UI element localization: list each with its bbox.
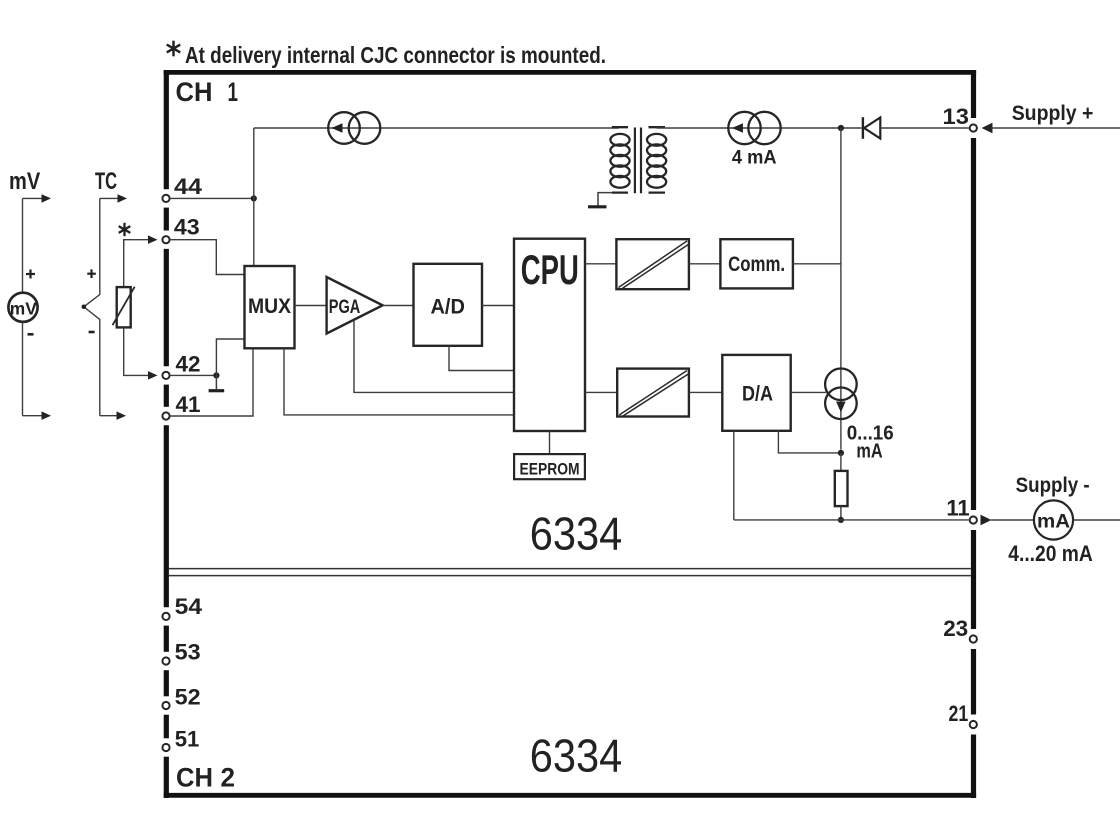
- svg-text:Comm.: Comm.: [728, 253, 785, 276]
- svg-text:MUX: MUX: [248, 295, 291, 318]
- terminal 41: [162, 392, 200, 420]
- mV source range arrow bottom: [23, 411, 52, 420]
- svg-text:13: 13: [943, 104, 969, 129]
- Supply + label: [1012, 102, 1094, 125]
- wire isolation 1 to Comm: [689, 263, 721, 265]
- CS3 value label 0...16 mA: [847, 422, 894, 462]
- CH 2 label: [176, 763, 235, 793]
- TC source range arrow top: [100, 194, 127, 203]
- wire CPU to EEPROM: [549, 431, 551, 454]
- MUX control line from CPU: [284, 348, 514, 415]
- wire PGA to A/D: [383, 305, 414, 307]
- svg-text:54: 54: [175, 594, 203, 619]
- wire ground node to MUX: [216, 339, 244, 375]
- TC lead with junction bend: [84, 198, 100, 415]
- transformer T1 secondary coil: [647, 127, 666, 192]
- excitation rail through current source CS1: [254, 127, 619, 129]
- wire Comm to supply bus: [793, 263, 841, 265]
- internal supply bus node B down to CS3: [840, 128, 842, 450]
- svg-text:21: 21: [949, 701, 969, 726]
- svg-text:A/D: A/D: [431, 296, 465, 319]
- CJC RTD resistor: [113, 287, 135, 328]
- svg-text:D/A: D/A: [742, 382, 773, 405]
- svg-text:Supply -: Supply -: [1016, 474, 1090, 497]
- svg-text:44: 44: [174, 174, 202, 199]
- diode D1 reverse polarity protection: [863, 117, 880, 139]
- supply plus arrow into terminal 13: [982, 123, 993, 133]
- svg-text:PGA: PGA: [329, 296, 361, 318]
- mV source lead lower: [22, 322, 24, 416]
- note text: [185, 42, 606, 68]
- svg-text:CPU: CPU: [521, 246, 579, 293]
- svg-text:4...20 mA: 4...20 mA: [1008, 541, 1092, 566]
- wire D/A to CS3: [791, 391, 826, 393]
- load resistor: [835, 471, 848, 506]
- analog ground symbol: [209, 375, 225, 390]
- output wire to terminal 11: [734, 519, 970, 521]
- module enclosure bottom border: [164, 793, 976, 798]
- wire load resistor to node D: [840, 506, 842, 520]
- svg-text:51: 51: [175, 727, 200, 752]
- svg-text:4 mA: 4 mA: [732, 148, 777, 169]
- note asterisk: [167, 41, 181, 57]
- current source CS2 4mA supply: [728, 112, 780, 144]
- svg-text:mV: mV: [9, 168, 40, 195]
- svg-text:2: 2: [221, 763, 236, 793]
- model number 6334 CH2: [530, 730, 623, 782]
- svg-text:1: 1: [228, 77, 239, 107]
- svg-text:CH: CH: [176, 763, 213, 793]
- svg-text:6334: 6334: [530, 507, 623, 559]
- wire terminal 42 to ground node: [170, 374, 217, 376]
- A/D status line to CPU: [449, 346, 514, 371]
- terminal 23: [943, 616, 977, 642]
- CJC branch wire to terminal 43: [124, 235, 158, 246]
- svg-text:At delivery internal CJC conne: At delivery internal CJC connector is mo…: [185, 42, 606, 68]
- mV polarity minus: [28, 333, 34, 336]
- svg-text:EEPROM: EEPROM: [520, 459, 580, 478]
- node D junction dot: [838, 517, 844, 523]
- CJC branch wire to terminal 42: [124, 327, 158, 379]
- supply minus wire: [1073, 519, 1120, 521]
- svg-text:mA: mA: [1037, 510, 1070, 532]
- transformer T1 primary coil: [610, 127, 629, 192]
- supply rail from transformer to node B: [657, 127, 862, 129]
- galvanic isolation output channel: [617, 369, 689, 417]
- A/D converter: [414, 264, 483, 346]
- wire terminal 41 to MUX: [170, 348, 253, 416]
- module enclosure right border (terminal strip): [971, 70, 976, 798]
- terminal 53: [162, 640, 200, 665]
- D/A feedback stub right: [778, 431, 838, 453]
- D/A feedback stub left: [733, 431, 735, 520]
- svg-text:11: 11: [946, 496, 969, 521]
- terminal 21: [949, 701, 977, 728]
- mV source lead upper: [22, 198, 24, 292]
- wire terminal 11 to mA meter: [991, 519, 1034, 521]
- wire node A up to excitation rail: [253, 128, 255, 198]
- wire isolation 2 to D/A: [689, 391, 722, 393]
- transformer primary ground: [588, 193, 612, 207]
- mV polarity plus: [26, 270, 35, 279]
- svg-text:53: 53: [175, 640, 201, 665]
- supply plus wire: [991, 127, 1120, 129]
- galvanic isolation comm channel: [616, 239, 689, 289]
- Supply - label: [1016, 474, 1090, 497]
- svg-text:41: 41: [176, 392, 201, 417]
- mV source circle: [8, 293, 37, 322]
- terminal 44: [162, 174, 202, 202]
- svg-text:6334: 6334: [530, 730, 623, 782]
- svg-text:TC: TC: [95, 168, 117, 195]
- Comm block: [720, 239, 793, 288]
- terminal 42: [162, 352, 200, 379]
- wire CPU to isolation 2: [585, 391, 617, 393]
- ground node junction dot: [213, 372, 219, 378]
- mV input label: [9, 168, 40, 195]
- wire node C to load resistor: [840, 453, 842, 471]
- current source CS3 output 0-16mA: [825, 369, 857, 420]
- module enclosure top border: [164, 70, 976, 75]
- wire terminal 43 to MUX: [170, 240, 245, 275]
- svg-text:Supply +: Supply +: [1012, 102, 1094, 125]
- terminal 51: [162, 727, 199, 752]
- current source CS1 sensor excitation: [328, 112, 380, 144]
- CS3 arrowhead down: [836, 402, 846, 413]
- terminal 54: [162, 594, 202, 620]
- node B junction dot: [838, 125, 844, 131]
- multiplexer MUX: [245, 266, 295, 348]
- output range label 4...20 mA: [1008, 541, 1092, 566]
- mA meter: [1034, 500, 1073, 539]
- TC source range arrow bottom: [100, 411, 126, 420]
- output arrow from terminal 11: [981, 515, 992, 525]
- wire CPU to isolation 1: [585, 263, 616, 265]
- svg-text:42: 42: [176, 352, 201, 377]
- node C junction dot: [838, 450, 844, 456]
- channel divider double line: [169, 569, 971, 576]
- terminal 13: [943, 104, 977, 132]
- wire A/D to CPU: [482, 305, 514, 307]
- mV source range arrow top: [23, 194, 52, 203]
- wire diode to terminal 13: [880, 127, 969, 129]
- D/A converter: [722, 355, 790, 431]
- svg-text:43: 43: [174, 214, 200, 239]
- EEPROM memory: [514, 454, 585, 479]
- CS1 arrowhead: [332, 123, 343, 133]
- node A junction dot: [251, 195, 257, 201]
- CS2 arrowhead: [732, 123, 743, 133]
- wire node A down to MUX: [253, 198, 255, 266]
- svg-text:23: 23: [943, 616, 968, 641]
- module enclosure left border (terminal strip): [164, 70, 169, 798]
- programmable gain amplifier PGA: [327, 277, 383, 334]
- TC polarity plus: [87, 269, 96, 278]
- CS2 value label 4 mA: [732, 148, 777, 169]
- svg-text:CH: CH: [176, 77, 213, 107]
- terminal 52: [162, 685, 200, 710]
- terminal 11: [946, 496, 977, 524]
- transformer T1 core: [635, 128, 641, 194]
- svg-text:52: 52: [175, 685, 201, 710]
- CPU: [514, 239, 585, 431]
- svg-text:mA: mA: [856, 440, 882, 462]
- wire MUX to PGA: [295, 305, 327, 307]
- PGA control line from CPU: [354, 321, 514, 393]
- CH 1 label: [176, 77, 239, 107]
- CJC RTD upper lead: [123, 240, 125, 287]
- wire terminal 44 to node A: [170, 197, 254, 199]
- CJC asterisk: [119, 223, 131, 236]
- terminal 43: [162, 214, 199, 243]
- svg-text:mV: mV: [10, 299, 37, 319]
- TC polarity minus: [89, 331, 95, 334]
- model number 6334 CH1: [530, 507, 623, 559]
- TC junction dot: [82, 305, 87, 310]
- TC input label: [95, 168, 117, 195]
